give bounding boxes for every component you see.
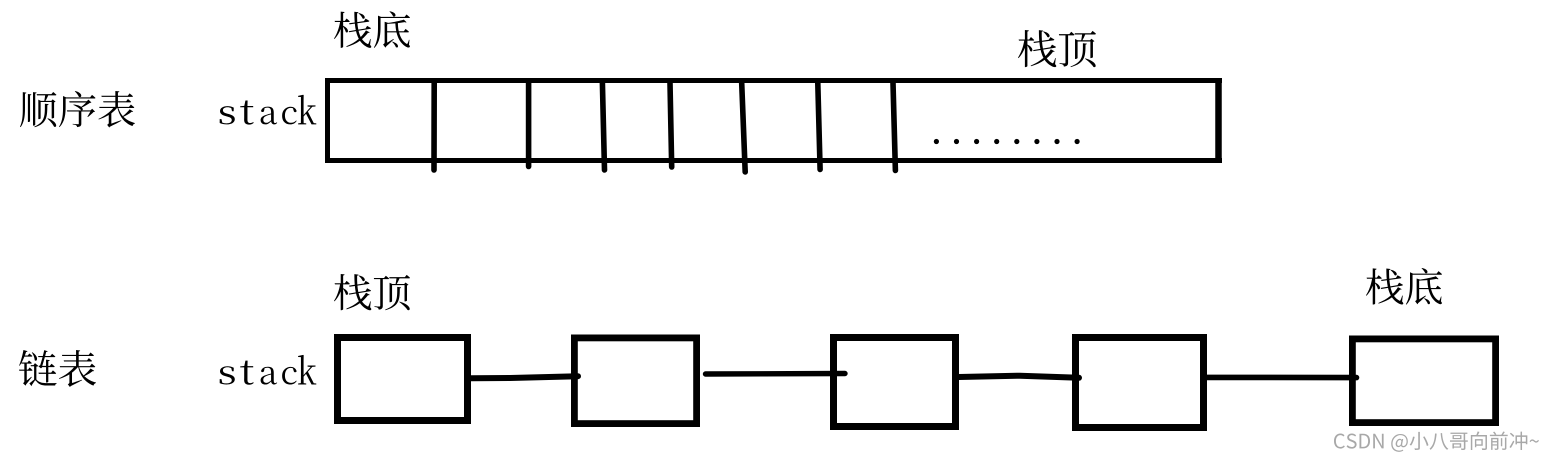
node box 5 <box>1352 339 1495 423</box>
node box 2 <box>574 338 696 424</box>
label: 栈底 (stack bottom) above node 5 <box>1366 268 1442 305</box>
array outline rectangle (sequential list) <box>325 78 1222 163</box>
cell divider 5 <box>742 83 746 172</box>
node box 1 <box>338 338 468 421</box>
ellipsis dots in last cell <box>934 139 1080 144</box>
link wire 3 (node3 -> node4) <box>959 376 1079 378</box>
node box 4 <box>1076 338 1204 428</box>
label: 栈顶 (stack top) above node 1 <box>334 274 410 310</box>
cell divider 2 <box>526 83 532 167</box>
link wire 2 (node2 -> node3) <box>706 371 846 377</box>
label: 栈底 (stack bottom) above array left end <box>334 11 410 48</box>
watermark: CSDN @小八哥向前冲~ <box>1334 431 1539 451</box>
label: row-1 array name "stack" <box>220 95 317 125</box>
cell divider 4 <box>670 83 672 167</box>
label: row-2 list name "stack" <box>220 355 317 385</box>
label: row-1 title 顺序表 (sequential list) <box>20 91 135 128</box>
link wire 1 (node1 -> node2) <box>471 376 578 378</box>
cell divider 3 <box>602 83 604 170</box>
node box 3 <box>834 338 956 427</box>
link wire 4 (node4 -> node5) <box>1207 375 1357 381</box>
label: row-2 title 链表 (linked list) <box>19 350 96 387</box>
label: 栈顶 (stack top) above array right end <box>1018 30 1096 67</box>
cell divider 1 <box>431 83 437 170</box>
cell divider 7 <box>893 83 895 171</box>
cell divider 6 <box>818 83 820 170</box>
